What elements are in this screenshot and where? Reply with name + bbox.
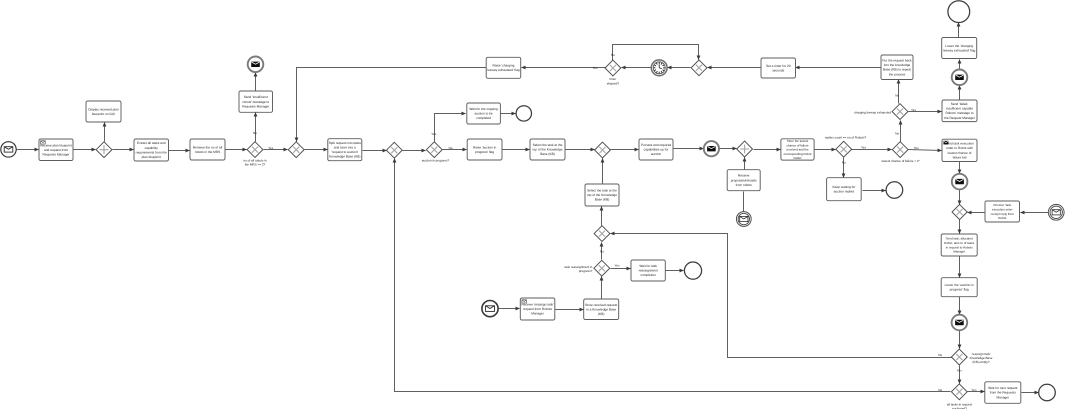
svg-text:replies count == no of Robots?: replies count == no of Robots?: [825, 136, 867, 140]
svg-text:No: No: [253, 131, 257, 135]
wire: Extract to Retrieve no of robots: [169, 150, 190, 152]
wire: Store lowest chance to gateway G8: [815, 149, 836, 151]
task: Raise charging leeway exhausted flag: [486, 57, 521, 78]
wire: E5 to parallel gateway G7: [720, 148, 737, 150]
wire: G8 Yes to gateway G9: [852, 149, 892, 151]
svg-text:Yes: Yes: [268, 146, 273, 150]
task: Raise auction in progress flag: [467, 139, 502, 160]
wire: G17 No loop to gateway G4 bottom: [395, 159, 951, 392]
task: Send task execution order to Robot with lowest chance of failure bid: [942, 139, 977, 161]
svg-text:No: No: [938, 353, 942, 357]
wire: Put task up for auction to throw message E5: [674, 148, 704, 150]
wire: G1 up to Display box: [104, 123, 106, 142]
event: timer intermediate 20s: [651, 60, 667, 76]
event: end after wait for ongoing auction: [516, 106, 531, 121]
svg-text:'reassign task'Knowledge Base(: 'reassign task'Knowledge Base(KB) empty?: [970, 352, 993, 364]
wire: Send failed message up to throw E11: [959, 86, 961, 101]
svg-text:Send 'insufficientrobots' mess: Send 'insufficientrobots' message toRequ…: [242, 95, 270, 108]
svg-text:Yes: Yes: [431, 132, 436, 136]
task: Send task allocated Robot and no of tasks in request to Robots Manager: [941, 234, 977, 256]
task: Put task and required capabilities up for auction: [639, 139, 673, 160]
gateway: G2 no of all robots in the MRS >= 2?: [247, 142, 263, 158]
gateway: G6 merge before put task: [595, 142, 611, 158]
event: message end - insufficient robots: [248, 57, 264, 73]
wire: Receive plan blueprint to gateway G1: [74, 149, 96, 151]
wire: start E9 to Receive reassign task box: [499, 308, 520, 310]
wire: G1 to Extract all tasks: [113, 149, 134, 151]
wire: Receive receipt reply to gateway G15: [968, 212, 985, 214]
svg-text:No: No: [842, 161, 846, 165]
event: message start - receive plan blueprint: [1, 142, 16, 157]
wire: Wait for reassignment completion to end E8: [666, 270, 684, 272]
wire: timer event to timer elapsed gateway: [622, 67, 652, 69]
task: Wait for next request from the Requests Manager: [985, 382, 1021, 404]
svg-text:Raise 'auction inprogress' fla: Raise 'auction inprogress' flag: [473, 145, 497, 154]
gateway: G15 merge receipt: [952, 204, 967, 219]
wire: catch E6 up to Receive proposals box: [743, 192, 745, 212]
wire: Split request to gateway G4: [363, 150, 387, 152]
gateway: G4 merge loop: [386, 142, 402, 158]
wire: G10 No up to Put request back: [898, 80, 900, 104]
task: Wait for task reassignment completion: [631, 260, 665, 281]
task: Receive proposals refusals from robots: [727, 170, 760, 191]
event: end after reassignment completion: [684, 262, 701, 279]
task: Select the task at the top of the Knowledge Base 2: [585, 184, 619, 206]
svg-text:Retrieve the no of allrobots i: Retrieve the no of allrobots in the MRS: [193, 145, 223, 154]
wire: G5 No to Raise auction in progress flag: [443, 149, 467, 151]
wire: Keep waiting to end E7: [863, 190, 886, 192]
svg-text:Yes: Yes: [957, 369, 962, 373]
wire: Store received request up to gateway G14: [601, 277, 603, 300]
svg-text:Yes: Yes: [615, 264, 620, 268]
event: message catch - receipt reply: [1048, 204, 1064, 220]
wire: start to Receive plan blueprint: [17, 149, 39, 151]
svg-text:Yes: Yes: [911, 108, 916, 112]
task: Select the task at the top of the Knowledge Base: [530, 139, 565, 160]
event: message throw - task execution order: [952, 174, 968, 190]
gateway: G3 merge: [288, 142, 304, 158]
wire: G10 Yes to Send failed message: [909, 111, 942, 113]
gateway: G17 all tasks in request auctioned?: [951, 384, 967, 400]
wire: E12 to gateway G15: [959, 190, 961, 205]
svg-text:No: No: [600, 249, 604, 253]
wire: G4 to gateway G5: [403, 150, 426, 152]
event: end after keep waiting: [886, 182, 903, 199]
gateway: G7 parallel join proposals: [737, 141, 753, 157]
event: end bottom right: [1039, 384, 1056, 401]
svg-text:Wait for taskreassignmentcompl: Wait for taskreassignmentcompletion: [639, 264, 658, 277]
svg-text:Lower the 'chargingleeway exha: Lower the 'chargingleeway exhausted' fla…: [943, 44, 975, 53]
wire: receive proposals to parallel G7: [744, 158, 746, 170]
gateway: G1 parallel split after receive: [96, 142, 112, 158]
svg-text:Split request into tasksand st: Split request into tasksand store into a…: [329, 141, 361, 159]
gateway: G5 auction in progress?: [426, 142, 442, 158]
svg-text:charging leeway exhausted: charging leeway exhausted: [854, 110, 891, 114]
gateway: G9 lowest chance of failure < t?: [892, 142, 908, 158]
wire: G9 No up to G10: [900, 121, 902, 142]
event: message catch - proposals from robots: [736, 212, 751, 227]
svg-text:Yes: Yes: [861, 146, 866, 150]
task: Lower the auction in progress flag: [941, 278, 977, 297]
gateway: G12 merge timer loop: [691, 60, 707, 76]
wire: Put request back to Set a timer: [796, 67, 882, 69]
wire: G12 to timer event: [668, 67, 691, 69]
wire: Select task 2 up to gateway G6: [602, 159, 604, 185]
task: Receive plan blueprint and request from Requests Manager: [39, 139, 73, 161]
wire: timer elapsed No loop to G12: [613, 45, 699, 61]
wire: G17 Yes to Wait for next request: [968, 391, 985, 393]
svg-text:No: No: [449, 146, 453, 150]
wire: Retrieve to gateway G2: [226, 149, 247, 151]
svg-text:no of all robots inthe MRS >=: no of all robots inthe MRS >= 2?: [243, 158, 267, 166]
wire: Send task execution order to throw E12: [959, 162, 961, 174]
task: Wait for the ongoing auction to be completed: [467, 103, 501, 124]
task: Store received request in a Knowledge Base: [584, 299, 619, 320]
task: Split request into tasks and store into a request to auction Knowledge Base: [328, 139, 362, 161]
task: Lower the charging leeway exhausted flag: [942, 38, 977, 59]
wire: G14 No up to gateway G13: [601, 243, 603, 260]
gateway: G10 charging leeway exhausted?: [892, 104, 908, 120]
svg-text:Display received planblueprint: Display received planblueprint on GUI: [88, 107, 119, 116]
event: message start - reassign task request: [482, 301, 498, 317]
gateway: G11 timer elapsed?: [605, 60, 621, 76]
task: Extract all tasks and capability requirements from the plan blueprint: [134, 139, 169, 161]
task: Store the lowest chance of failure received and the corresponding Robot holder: [781, 139, 814, 160]
task: Put the request back into the knowledge Base to repeat the process: [881, 55, 913, 80]
wire: G13 up to Select task 2: [601, 207, 603, 226]
wire: G8 No down to Keep waiting: [843, 158, 845, 178]
svg-text:No: No: [938, 388, 942, 392]
svg-text:Receive plan blueprintand requ: Receive plan blueprintand request fromRe…: [40, 143, 72, 156]
svg-text:No: No: [895, 93, 899, 97]
task: Display received plan blueprint on GUI: [86, 101, 121, 122]
wire: Receive reassign task to Store received request: [555, 309, 584, 311]
event: message throw - allocation info: [952, 315, 968, 331]
wire: E11 up to Lower charging leeway flag: [959, 60, 961, 70]
wire: E14 to gateway G16: [959, 331, 961, 349]
wire: Raise charging leeway flag to gateway G3 top: [297, 68, 487, 142]
svg-text:auction in progress?: auction in progress?: [422, 159, 450, 163]
wire: G9 Yes to Send task execution order: [909, 150, 942, 151]
wire: G16 No loop to gateway G13: [611, 234, 952, 358]
svg-text:Yes: Yes: [593, 66, 598, 70]
wire: G7 to Store lowest chance box: [754, 149, 781, 151]
wire: G5 Yes up to Wait for ongoing auction: [435, 114, 466, 142]
wire: G14 Yes to Wait for reassignment completion: [611, 268, 631, 270]
task: Receive task execution order receipt reply from Robot: [985, 201, 1020, 222]
event: message throw - auction announce: [704, 141, 719, 156]
wire: G2 No up to Send insufficient robots: [255, 113, 257, 142]
task: Set a timer for 20 seconds: [761, 58, 796, 78]
wire: G3 to Split request box: [305, 149, 328, 151]
svg-text:Yes: Yes: [914, 146, 919, 150]
svg-text:No: No: [895, 132, 899, 136]
wire: Wait for next request to end E15: [1022, 392, 1039, 394]
svg-text:Keep waiting forauction replie: Keep waiting forauction replies: [832, 185, 856, 194]
wire: Lower auction flag to throw E14: [959, 297, 961, 315]
wire: Lower charging leeway flag up to end E10: [958, 23, 960, 38]
svg-text:Yes: Yes: [972, 388, 977, 392]
task: Keep waiting for auction replies: [827, 178, 862, 201]
gateway: G16 reassign task KB empty?: [951, 349, 967, 365]
gateway: G8 replies count == no of Robots?: [836, 141, 852, 157]
wire: G15 down to Send task allocated robot: [959, 220, 961, 234]
wire: Set a timer to G12: [708, 67, 762, 69]
wire: Wait for ongoing auction to end E3: [501, 113, 516, 115]
wire: Select task to gateway G6: [566, 149, 595, 151]
event: message throw - failed message: [952, 70, 968, 86]
task: Send insufficient robots message to Requests Manager: [239, 91, 273, 112]
wire: G16 Yes to gateway G17: [959, 366, 961, 384]
svg-text:lowest chance of failure < t?: lowest chance of failure < t?: [882, 159, 920, 163]
gateway: G13 merge reassign: [594, 226, 610, 242]
task: Receive reassign task request from Robots Manager: [520, 298, 555, 320]
task: Retrieve the no of all robots in the MRS: [190, 139, 225, 160]
wire: timer elapsed Yes to Raise charging leeway flag: [522, 67, 606, 69]
wire: Raise auction flag to Select task: [503, 149, 530, 151]
wire: catch E13 to Receive receipt reply box: [1021, 212, 1049, 214]
task: Send failed insufficient capable Robots message to the Request Manager: [942, 100, 977, 122]
gateway: G14 task reassignment in progress?: [594, 260, 610, 276]
wire: Send task allocated to Lower auction flag: [959, 257, 961, 278]
wire: G6 to Put task up for auction: [611, 149, 639, 151]
wire: Send insufficient robots to end message E2: [255, 73, 257, 92]
wire: G2 Yes to gateway G3: [264, 149, 288, 151]
event: end top right: [948, 1, 970, 23]
svg-text:No: No: [611, 53, 615, 57]
